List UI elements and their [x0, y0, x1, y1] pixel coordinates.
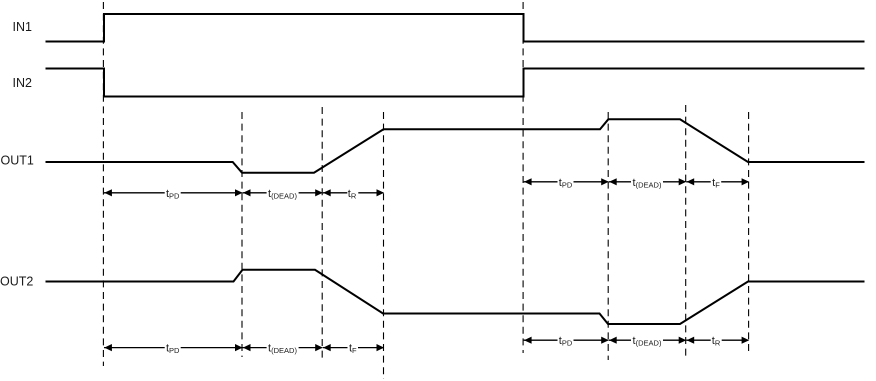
svg-text:IN1: IN1	[13, 20, 33, 34]
svg-text:OUT1: OUT1	[1, 154, 34, 168]
svg-text:OUT2: OUT2	[0, 275, 33, 289]
svg-text:IN2: IN2	[13, 76, 33, 90]
